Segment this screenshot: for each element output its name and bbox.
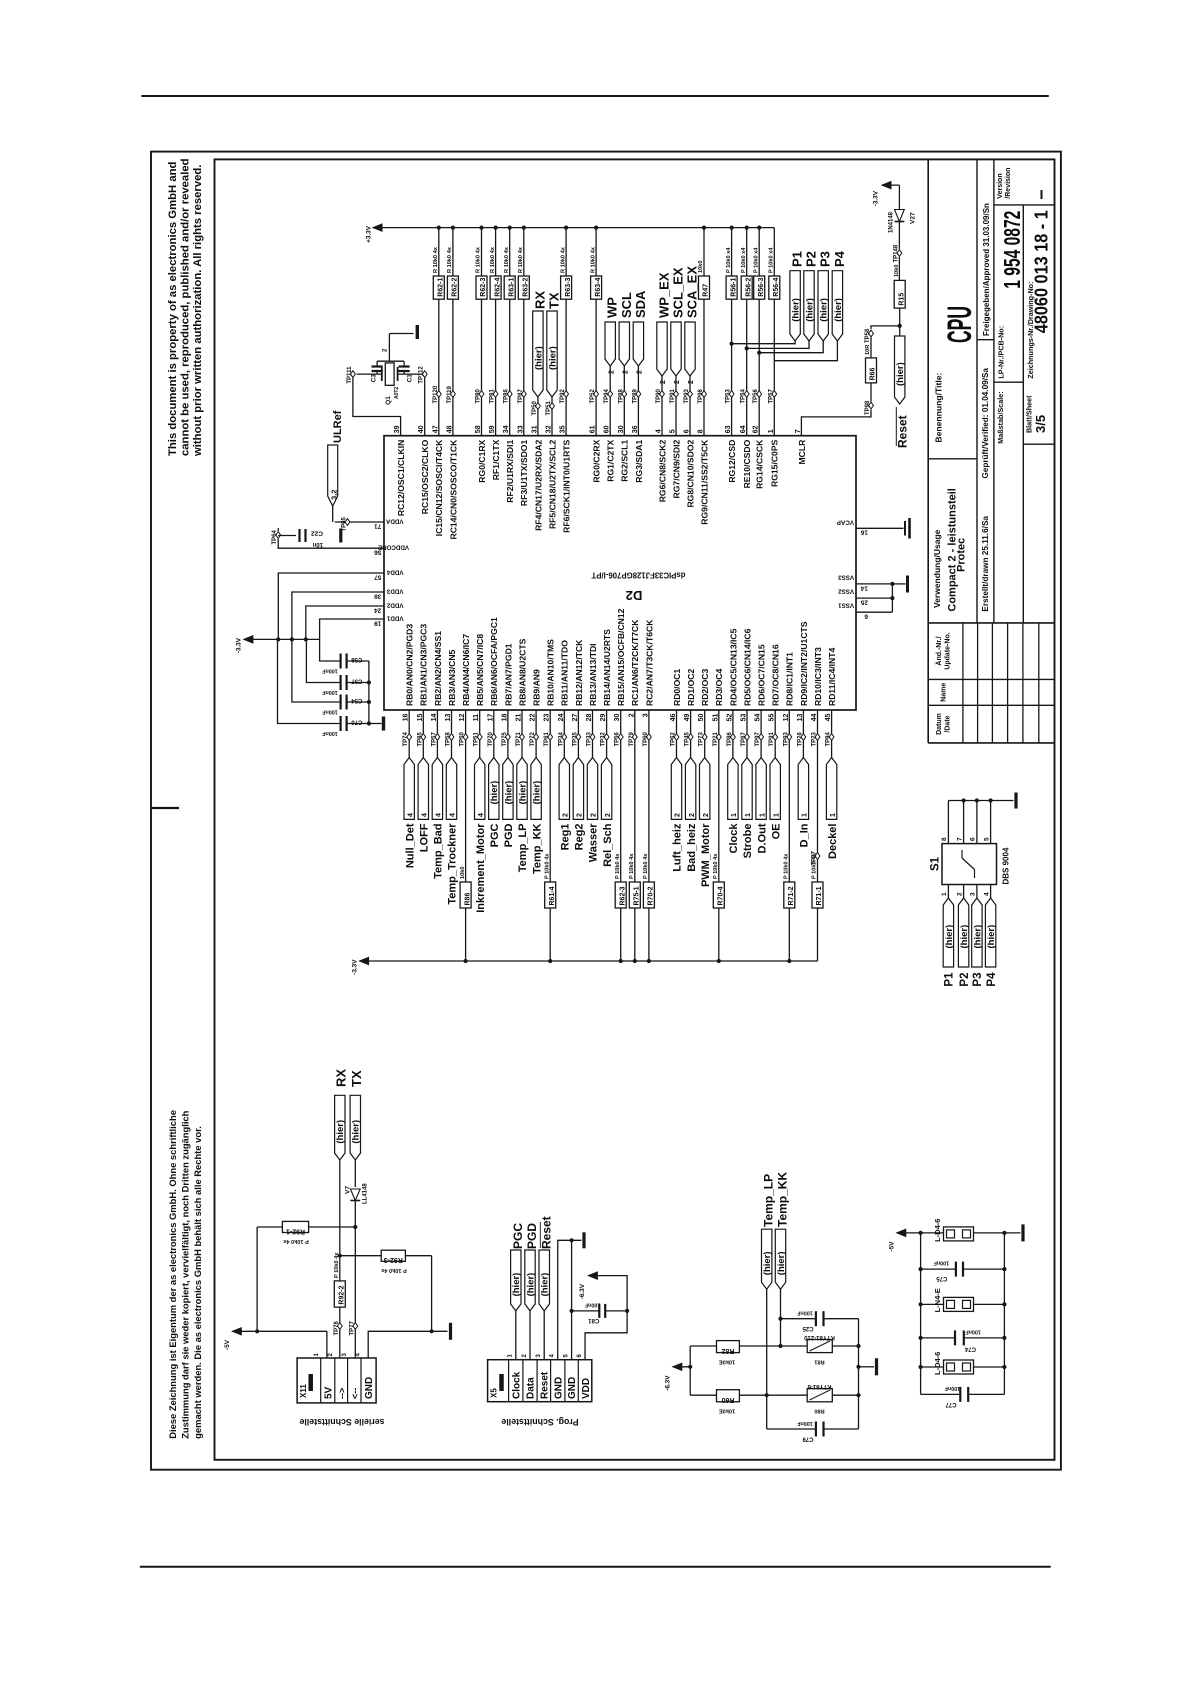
svg-text:1: 1	[773, 813, 780, 817]
S1 top pins 8 7 6 5 to ground rail	[941, 793, 1016, 844]
svg-text:4: 4	[356, 1353, 362, 1357]
svg-text:RG0/C1RX: RG0/C1RX	[477, 439, 487, 482]
svg-text:RD1/OC2: RD1/OC2	[686, 669, 696, 706]
svg-text:TP98: TP98	[865, 400, 871, 415]
flag P4	[832, 250, 847, 341]
wire +3.3V to resistor R62-2	[451, 226, 455, 277]
svg-text:TP89: TP89	[632, 388, 638, 403]
test point TP54	[741, 388, 749, 403]
svg-text:25: 25	[860, 599, 868, 606]
svg-text:VSS1: VSS1	[838, 602, 854, 609]
-6.3V power arrow (sensor)	[665, 1346, 693, 1395]
svg-text:DBS 9004: DBS 9004	[1002, 847, 1011, 884]
svg-text:RB8/AN8/U2CTS: RB8/AN8/U2CTS	[517, 638, 527, 706]
svg-text:TP93: TP93	[783, 731, 789, 746]
flag Clock	[728, 758, 740, 854]
svg-text:R47: R47	[703, 284, 710, 297]
svg-text:(hier): (hier)	[833, 298, 844, 322]
wire to MCLR pin 7	[801, 410, 871, 436]
svg-text:RB0/AN0/CN2/PGD3: RB0/AN0/CN2/PGD3	[405, 624, 415, 706]
svg-text:P4: P4	[832, 250, 847, 267]
svg-text:1: 1	[830, 813, 837, 817]
svg-text:Clock: Clock	[728, 823, 740, 854]
svg-text:2: 2	[637, 370, 644, 374]
svg-text:RD0/OC1: RD0/OC1	[672, 669, 682, 706]
wire to flag Wasser	[592, 741, 594, 758]
svg-text:(hier): (hier)	[776, 1251, 787, 1275]
svg-text:RB14/AN14/U2RTS: RB14/AN14/U2RTS	[602, 629, 612, 706]
flag LOFF	[418, 758, 430, 853]
svg-text:2: 2	[956, 892, 963, 896]
IC bottom pin wire at x=466	[465, 710, 467, 734]
svg-text:TP52: TP52	[590, 388, 596, 403]
svg-text:R56-2: R56-2	[745, 278, 752, 297]
svg-text:1 954 0872: 1 954 0872	[999, 211, 1025, 289]
svg-text:C74: C74	[964, 1345, 976, 1351]
svg-text:R 10k0 4x: R 10k0 4x	[560, 246, 566, 273]
resistor R60 10k0E	[690, 1394, 716, 1396]
svg-text:TP70: TP70	[488, 731, 494, 746]
pin VDDA (71)	[335, 518, 404, 530]
+3.3V power rail (top)	[366, 224, 775, 243]
svg-text:3/5: 3/5	[1033, 415, 1048, 433]
wire to flag PGD	[507, 741, 509, 758]
svg-text:(hier): (hier)	[804, 298, 815, 322]
flag PGD	[503, 758, 515, 848]
svg-text:RC14/CN0/SOSCO/T1CK: RC14/CN0/SOSCO/T1CK	[448, 439, 458, 540]
signal flag SCA_EX	[685, 266, 700, 436]
svg-text:LOFF: LOFF	[419, 823, 431, 852]
flag Reset	[895, 336, 910, 448]
IC bottom pin wire at x=550	[549, 710, 551, 734]
svg-text:4: 4	[478, 813, 485, 817]
flag PWM_Motor	[700, 758, 712, 888]
IC bottom pin wire at x=508	[507, 710, 509, 734]
wire to flag PWM_Motor	[704, 741, 706, 758]
wire R92-3 to ground	[431, 1256, 433, 1332]
svg-text:10k0: 10k0	[698, 261, 704, 273]
test point TP96	[698, 388, 706, 403]
svg-text:R 10k0 4x: R 10k0 4x	[476, 246, 482, 273]
svg-text:Temp_KK: Temp_KK	[531, 823, 543, 874]
svg-text:10R: 10R	[865, 345, 871, 355]
S1 pin 1 to flag P1	[941, 885, 955, 987]
connector X5	[488, 1354, 593, 1428]
IC bottom pin wire at x=564	[563, 710, 565, 734]
flag PGC	[489, 758, 501, 848]
wire RX to X11 pin 2	[338, 1160, 342, 1281]
svg-text:C3: C3	[371, 374, 378, 383]
svg-text:(hier): (hier)	[972, 925, 983, 949]
wire to flag Temp_Bad	[436, 741, 438, 758]
svg-text:C22: C22	[311, 530, 323, 537]
svg-text:TP86: TP86	[504, 388, 510, 403]
wire to flag Bad_heiz	[690, 741, 692, 758]
svg-text:4: 4	[407, 813, 414, 817]
svg-text:V7: V7	[345, 1186, 352, 1194]
svg-text:R60: R60	[721, 1396, 734, 1403]
svg-text:RB1/AN1/CN3/PGC3: RB1/AN1/CN3/PGC3	[419, 624, 429, 706]
svg-text:100nF: 100nF	[965, 1329, 981, 1335]
svg-text:1: 1	[941, 892, 948, 896]
test point TP51	[474, 731, 482, 746]
svg-text:PGD: PGD	[525, 1223, 539, 1249]
svg-text:Temp_Trockner: Temp_Trockner	[447, 823, 459, 905]
IC bottom pin wire at x=409	[408, 710, 410, 734]
svg-text:R63-4: R63-4	[595, 278, 602, 297]
wire R56-3 to IC pin	[757, 299, 761, 436]
flag RX (serial)	[334, 1069, 349, 1160]
svg-text:SCL: SCL	[619, 292, 634, 318]
svg-text:Data: Data	[526, 1377, 537, 1399]
switch S1 DBS 9004	[930, 844, 1011, 885]
outer sheet frame	[151, 152, 1061, 1470]
svg-text:R 10k0 4x: R 10k0 4x	[504, 246, 510, 273]
svg-text:RF2/U1RX/SDI1: RF2/U1RX/SDI1	[505, 439, 515, 502]
IC bottom pin wire at x=578	[577, 710, 579, 734]
svg-text:P 10k0 4x: P 10k0 4x	[629, 853, 635, 879]
svg-text:RG15/C0PS: RG15/C0PS	[770, 439, 780, 487]
svg-text:This document is property of: This document is property of as electron…	[167, 161, 179, 456]
svg-text:R82: R82	[721, 1347, 734, 1354]
test point TP76	[334, 1320, 342, 1335]
test point TP71	[516, 731, 524, 746]
IC bottom pin wire at x=789	[788, 710, 790, 734]
wire +3.3V to resistor R56-4	[773, 228, 775, 276]
svg-text:(hier): (hier)	[511, 1273, 522, 1297]
svg-text:A0T2: A0T2	[394, 387, 400, 399]
wire flag P4 to R56-4	[774, 341, 837, 361]
svg-text:2: 2	[703, 813, 710, 817]
svg-text:100nF: 100nF	[322, 689, 338, 695]
wire R15 to Reset node	[898, 308, 902, 336]
IC bottom pin wire at x=621	[620, 710, 622, 734]
svg-text:TP94: TP94	[604, 388, 610, 403]
resistor R63-4 R 10k0 4x	[590, 246, 602, 299]
svg-text:(hier): (hier)	[547, 346, 558, 370]
svg-text:100nF: 100nF	[797, 1420, 813, 1426]
wire R66 down	[870, 383, 872, 402]
svg-text:-3.3V: -3.3V	[236, 637, 243, 653]
X5 VDD pin to -6.3V and C81	[579, 1272, 629, 1360]
svg-text:Temp_Bad: Temp_Bad	[433, 824, 445, 879]
test point TP119	[447, 385, 455, 403]
test point TP80	[476, 388, 484, 403]
svg-text:(hier): (hier)	[351, 1120, 362, 1144]
svg-text:RG9/CN11/SS2/T5CK: RG9/CN11/SS2/T5CK	[699, 439, 709, 525]
svg-text:R62-1: R62-1	[438, 278, 445, 297]
svg-text:2: 2	[563, 813, 570, 817]
inner drawing frame	[215, 159, 1055, 1459]
svg-text:-->: -->	[337, 1388, 347, 1399]
svg-text:P 10k0 4x: P 10k0 4x	[713, 853, 719, 879]
svg-text:GND: GND	[553, 1377, 564, 1399]
svg-text:RB15/AN15/OCFB/CN12: RB15/AN15/OCFB/CN12	[616, 608, 626, 706]
svg-text:RG12/CSD: RG12/CSD	[727, 440, 737, 483]
svg-text:RG7/CN9/SDI2: RG7/CN9/SDI2	[671, 439, 681, 498]
svg-text:R62-2: R62-2	[452, 278, 459, 297]
svg-text:TP96: TP96	[698, 388, 704, 403]
wire R62-1 to IC pin	[438, 299, 440, 436]
test point TP85	[417, 731, 425, 746]
svg-text:TP92: TP92	[560, 388, 566, 403]
resistor R56-3 P 10k0 x4	[753, 247, 765, 299]
svg-text:P 10k0 4x: P 10k0 4x	[784, 853, 790, 879]
svg-text:C81: C81	[588, 1317, 600, 1323]
svg-text:P2: P2	[804, 251, 819, 267]
test point TP65	[342, 516, 350, 531]
wire to flag OE	[774, 741, 776, 758]
test point TP70	[488, 731, 496, 746]
wire +3.3V to resistor R63-1	[508, 226, 512, 277]
svg-text:TP148: TP148	[893, 244, 899, 262]
svg-text:Freigegeben/Approved 31.03.09: Freigegeben/Approved 31.03.09/Sn	[982, 203, 991, 336]
svg-text:PGD: PGD	[503, 823, 515, 847]
signal flag WP_EX	[657, 272, 672, 436]
wire +3.3V to resistor R63-2	[522, 226, 526, 277]
signal flag SCL_EX	[671, 267, 686, 436]
flag Wasser	[587, 758, 599, 863]
resistor R15 10k0	[894, 265, 906, 309]
svg-text:16: 16	[860, 529, 868, 536]
flag D.Out	[756, 758, 768, 854]
wire R92-1 to -5V rail	[256, 1227, 258, 1331]
svg-text:-5V: -5V	[224, 1339, 231, 1350]
svg-text:(hier): (hier)	[959, 925, 970, 949]
svg-text:Version: Version	[997, 173, 1004, 198]
svg-text:RF6/SCK1/INT0/U1RTS: RF6/SCK1/INT0/U1RTS	[562, 439, 572, 532]
svg-text:1: 1	[802, 813, 809, 817]
test point TP57	[768, 388, 776, 403]
svg-text:Reset: Reset	[540, 1371, 551, 1399]
svg-text:R61-4: R61-4	[549, 886, 556, 905]
capacitor C75 100nF	[919, 1260, 1007, 1282]
test point TP35	[572, 731, 580, 746]
test point TP120	[433, 385, 441, 403]
wire to R66	[870, 337, 872, 358]
svg-text:TP64: TP64	[272, 529, 278, 544]
IC bottom pin wire at x=649	[648, 710, 650, 734]
svg-text:PGC: PGC	[489, 823, 501, 847]
svg-text:TP54: TP54	[741, 388, 747, 403]
IC bottom pin wire at x=775	[774, 710, 776, 734]
svg-text:C70: C70	[351, 718, 363, 724]
-3.3V power arrow (VDD rail)	[236, 636, 320, 653]
svg-text:5: 5	[983, 837, 990, 841]
flag Temp_LP (sensor)	[762, 1174, 776, 1429]
svg-text:4: 4	[983, 892, 990, 896]
svg-text:P3: P3	[818, 251, 833, 267]
temp sensor R81 KTY81-210	[803, 1334, 834, 1365]
svg-text:serielle Schnittstelle: serielle Schnittstelle	[299, 1417, 384, 1427]
svg-text:L-D4-6: L-D4-6	[933, 1219, 942, 1242]
test point TP94	[604, 388, 612, 403]
wire R71-2 to -3.3V rail	[787, 908, 791, 963]
svg-text:TP50: TP50	[532, 400, 538, 415]
wire R60 to R80	[739, 1394, 807, 1396]
svg-text:CPU: CPU	[941, 306, 979, 343]
S1 pin 4 to flag P4	[983, 885, 997, 987]
svg-text:R 10k0 4x: R 10k0 4x	[490, 246, 496, 273]
svg-text:100nF: 100nF	[322, 730, 338, 736]
svg-text:Reg1: Reg1	[560, 824, 572, 851]
title block grid	[928, 159, 1054, 743]
pin VCAP termination	[837, 518, 910, 539]
svg-text:2: 2	[623, 370, 630, 374]
svg-text:TP86: TP86	[727, 731, 733, 746]
capacitor C81 100nF	[570, 1302, 628, 1324]
svg-text:TP27: TP27	[812, 850, 818, 865]
IC bottom pin wire at x=480	[479, 710, 481, 734]
svg-text:L-N4-E: L-N4-E	[933, 1288, 942, 1312]
test point TP97	[755, 731, 763, 746]
svg-text:Diese Zeichnung ist Eigentum d: Diese Zeichnung ist Eigentum der as elec…	[167, 1110, 178, 1439]
IC bottom pin wire at x=437	[436, 710, 438, 734]
svg-text:14: 14	[860, 584, 868, 591]
svg-text:Name: Name	[941, 683, 948, 702]
svg-text:2: 2	[577, 813, 584, 817]
resistor R71-2 P 10k0 4x	[784, 853, 796, 908]
svg-text:6: 6	[577, 1354, 583, 1358]
test point TP53	[726, 388, 734, 403]
svg-text:TP72: TP72	[530, 731, 536, 746]
svg-text:VSS2: VSS2	[838, 588, 854, 595]
resistor R86 10k0	[460, 867, 472, 908]
svg-text:RD2/OC3: RD2/OC3	[700, 669, 710, 706]
svg-text:P 10k0 4x: P 10k0 4x	[334, 1252, 340, 1278]
filter rails	[921, 1233, 1005, 1395]
svg-text:ULRef: ULRef	[332, 410, 344, 443]
svg-text:(hier): (hier)	[540, 1273, 551, 1297]
svg-text:1: 1	[314, 1353, 320, 1357]
filter bead L1 (-5V)	[919, 1219, 1024, 1242]
test point TP111	[347, 366, 355, 384]
IC bottom edge pin numbers and names	[403, 608, 837, 721]
svg-text:Strobe: Strobe	[742, 824, 754, 859]
resistor R47 10k0	[698, 261, 710, 300]
test point TP93	[684, 388, 692, 403]
VSS pins to ground	[838, 573, 908, 619]
svg-text:3: 3	[342, 1353, 348, 1357]
flag D_In	[798, 758, 810, 848]
svg-text:8: 8	[941, 837, 948, 841]
signal flag SCL	[619, 292, 634, 436]
svg-text:R80: R80	[814, 1408, 824, 1414]
filter bead L2	[919, 1288, 1007, 1312]
svg-text:VCAP: VCAP	[837, 519, 854, 526]
svg-text:TP62: TP62	[671, 731, 677, 746]
test point TP98	[865, 400, 873, 415]
svg-text:TP58: TP58	[446, 731, 452, 746]
flag Bad_heiz	[685, 758, 697, 872]
svg-text:2: 2	[605, 813, 612, 817]
wire to resistor R71-1	[817, 741, 819, 883]
svg-text:TP35: TP35	[572, 731, 578, 746]
svg-text:TP61: TP61	[544, 731, 550, 746]
svg-text:71: 71	[374, 523, 382, 530]
svg-text:6: 6	[864, 613, 868, 620]
svg-text:TP91: TP91	[769, 731, 775, 746]
wire to flag D_In	[802, 741, 804, 758]
test point TP74	[403, 731, 411, 746]
svg-text:TP80: TP80	[476, 388, 482, 403]
wire V7 to X11 pin 3	[353, 1201, 357, 1359]
svg-text:Q1: Q1	[385, 396, 392, 405]
wire R80 to rail	[832, 1393, 860, 1397]
resistor R56-4 P 10k0 x4	[769, 247, 781, 299]
svg-text:4: 4	[550, 1354, 556, 1358]
IC bottom pin wire at x=592	[592, 710, 594, 734]
svg-text:R 10k0 4x: R 10k0 4x	[447, 246, 453, 273]
svg-text:VDD2: VDD2	[386, 602, 403, 609]
svg-text:R63-1: R63-1	[508, 278, 515, 297]
test point TP34	[558, 731, 566, 746]
svg-text:TP23: TP23	[812, 731, 818, 746]
wire R63-3 to IC pin	[565, 299, 567, 436]
svg-text:R62-4: R62-4	[494, 278, 501, 297]
svg-text:TP94: TP94	[826, 731, 832, 746]
flag Temp_KK (sensor)	[775, 1172, 789, 1349]
svg-text:RF4/CN17/U2RX/SDA2: RF4/CN17/U2RX/SDA2	[533, 439, 543, 530]
svg-text:TP87: TP87	[518, 388, 524, 403]
capacitor C22 10n	[278, 528, 341, 547]
capacitor C54 100nF	[292, 639, 369, 714]
svg-text:RD11/IC4/INT4: RD11/IC4/INT4	[827, 648, 837, 706]
wire to resistor R71-2	[788, 741, 790, 883]
svg-text:TP77: TP77	[349, 1320, 355, 1335]
svg-text:1: 1	[508, 1354, 514, 1358]
flag Reset (prog)	[539, 1216, 554, 1359]
wire flag P1 to R56-1	[732, 341, 796, 344]
svg-text:IC15/CN12/SOSCI/T4CK: IC15/CN12/SOSCI/T4CK	[434, 439, 444, 536]
wire to resistor R62-3	[620, 741, 622, 883]
wire +3.3V to resistor R62-3	[479, 226, 483, 277]
wire +3.3V to resistor R47	[702, 226, 706, 277]
wire R62-3 to -3.3V rail	[619, 908, 623, 963]
svg-text:Protec: Protec	[956, 538, 968, 572]
IC bottom pin wire at x=747	[746, 710, 748, 734]
IC bottom pin wire at x=536	[535, 710, 537, 734]
svg-text:Rel_Sch: Rel_Sch	[602, 823, 614, 867]
test point TP26	[797, 731, 805, 746]
wire to flag Deckel	[831, 741, 833, 758]
svg-text:P 10k0 4x: P 10k0 4x	[380, 1267, 406, 1273]
svg-text:10k0E: 10k0E	[719, 1359, 735, 1365]
svg-text:gemacht werden. Die as electro: gemacht werden. Die as electronics GmbH …	[192, 1126, 203, 1439]
svg-text:+3.3V: +3.3V	[366, 225, 373, 243]
svg-text:D2: D2	[626, 588, 643, 603]
capacitor C74 100nF	[919, 1329, 1007, 1352]
svg-text:2: 2	[688, 380, 695, 384]
svg-text:RE10/CSDO: RE10/CSDO	[742, 439, 752, 488]
svg-text:RB9/AN9: RB9/AN9	[532, 669, 542, 706]
svg-text:4: 4	[436, 813, 443, 817]
svg-text:RG14/CSCK: RG14/CSCK	[755, 439, 765, 489]
svg-text:RD7/OC8/CN16: RD7/OC8/CN16	[771, 644, 781, 706]
svg-text:GND: GND	[567, 1377, 578, 1399]
page bottom rule	[140, 1566, 1051, 1568]
svg-text:RB11/AN11/TDO: RB11/AN11/TDO	[560, 640, 570, 706]
svg-text:L-D4-6: L-D4-6	[933, 1352, 942, 1375]
title block text: LP-Nr 1 954 0872	[997, 211, 1025, 379]
svg-text:X11: X11	[299, 1384, 308, 1398]
svg-text:VDD: VDD	[581, 1378, 592, 1399]
svg-text:TP51: TP51	[474, 731, 480, 746]
svg-text:(hier): (hier)	[986, 925, 997, 949]
svg-text:PWM_Motor: PWM_Motor	[700, 823, 712, 887]
wire R70-2 to -3.3V rail	[647, 908, 651, 963]
svg-text:Reset: Reset	[896, 415, 910, 448]
